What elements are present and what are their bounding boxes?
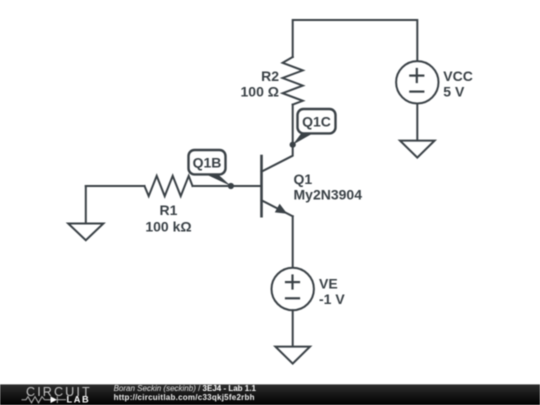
svg-text:LAB: LAB bbox=[67, 395, 91, 405]
svg-text:Q1: Q1 bbox=[294, 171, 313, 187]
voltage source VCC bbox=[396, 61, 438, 103]
CircuitLab logo wordmark LAB bbox=[67, 395, 91, 405]
label: VE value -1 V bbox=[319, 291, 345, 307]
CircuitLab logo wordmark CIRCUIT bbox=[26, 385, 92, 399]
wire: left ground corner to R1 left lead bbox=[86, 185, 145, 187]
footer url line bbox=[114, 393, 255, 402]
footer credit line: author / title bbox=[114, 384, 257, 393]
svg-text:-1 V: -1 V bbox=[319, 291, 345, 307]
svg-text:Q1B: Q1B bbox=[193, 154, 222, 170]
label: Q1 model My2N3904 bbox=[294, 187, 363, 203]
svg-text:100 Ω: 100 Ω bbox=[241, 84, 279, 100]
wire: VE minus terminal to bottom ground bbox=[292, 310, 294, 346]
node: Q1C collector junction dot bbox=[290, 142, 296, 148]
ground (bottom, below VE) bbox=[275, 347, 310, 364]
label: VCC value 5 V bbox=[443, 84, 465, 100]
wire: Q1 emitter to VE plus terminal bbox=[292, 216, 294, 267]
label: VCC designator bbox=[443, 68, 473, 84]
label: VE designator bbox=[319, 275, 338, 291]
resistor R1 bbox=[145, 176, 193, 196]
ground (left, at R1 input) bbox=[68, 224, 103, 241]
svg-text:5 V: 5 V bbox=[443, 84, 465, 100]
wire: VCC minus terminal to right ground bbox=[416, 104, 418, 141]
label: R1 designator bbox=[160, 202, 178, 218]
voltage source VE bbox=[272, 268, 314, 310]
probe callout Q1C bbox=[293, 109, 336, 145]
ground (right, below VCC) bbox=[400, 141, 435, 158]
footer bar bbox=[0, 384, 540, 405]
CircuitLab logo resistor-diode glyph bbox=[22, 396, 67, 403]
wire: R2 bottom to collector node bbox=[292, 105, 294, 145]
svg-text:VE: VE bbox=[319, 275, 338, 291]
wire: R1 right lead to Q1 base bbox=[193, 185, 262, 187]
probe callout Q1B bbox=[189, 150, 231, 186]
label: R2 value 100 Ω bbox=[241, 84, 279, 100]
wire: top rail from R2 top to VCC plus terminal bbox=[293, 20, 418, 62]
label: R1 value 100 kΩ bbox=[145, 219, 191, 235]
svg-text:My2N3904: My2N3904 bbox=[294, 187, 363, 203]
svg-text:R1: R1 bbox=[160, 202, 178, 218]
svg-text:100 kΩ: 100 kΩ bbox=[145, 219, 191, 235]
svg-text:VCC: VCC bbox=[443, 68, 473, 84]
svg-text:http://circuitlab.com/c33qkj5f: http://circuitlab.com/c33qkj5fe2rbh bbox=[114, 393, 255, 402]
label: Q1 designator bbox=[294, 171, 313, 187]
svg-text:Q1C: Q1C bbox=[302, 113, 331, 129]
svg-text:Boran Seckin (seckinb) / 3EJ4: Boran Seckin (seckinb) / 3EJ4 - Lab 1.1 bbox=[114, 384, 257, 393]
svg-text:R2: R2 bbox=[261, 68, 279, 84]
wire: left ground riser bbox=[85, 186, 87, 224]
node: Q1B base junction dot bbox=[228, 183, 234, 189]
label: R2 designator bbox=[261, 68, 279, 84]
resistor R2 bbox=[283, 57, 303, 105]
transistor Q1 (NPN) bbox=[262, 145, 293, 217]
